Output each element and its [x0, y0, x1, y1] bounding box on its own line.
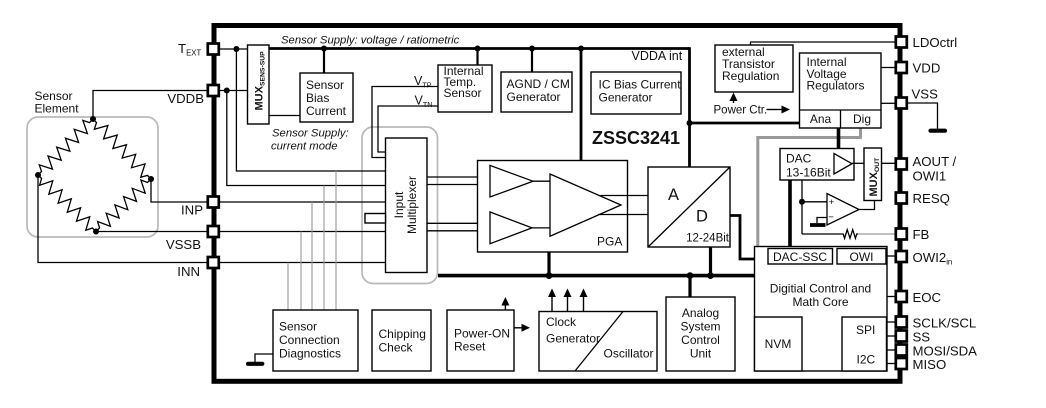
NVM label — [765, 337, 792, 351]
sensor connection diagnostics label — [279, 320, 341, 361]
net VDDA: vertical drop to PGA — [580, 49, 583, 161]
wire INP to input mux — [220, 201, 386, 203]
wire bridge-top to VDDB pin — [93, 91, 208, 120]
svg-text:Sensor Supply: voltage / ratio: Sensor Supply: voltage / ratiometric — [281, 35, 460, 47]
wire mux out 1b — [427, 184, 490, 186]
net VDDA: power ctr horizontal to regulators — [688, 122, 799, 125]
wire VDDB pin to MUX — [220, 90, 248, 92]
bridge resistor bottom-right — [96, 179, 151, 232]
wire LDOctrl to ext transistor regulation — [751, 42, 896, 45]
pin MISO — [896, 358, 907, 369]
bridge resistor top-left — [38, 119, 93, 175]
wire TEXT sense down to input mux — [236, 49, 385, 171]
external transistor regulation label — [722, 45, 779, 83]
svg-text:Sensor Supply:: Sensor Supply: — [272, 128, 349, 140]
svg-text:Generator: Generator — [546, 332, 600, 346]
opamp plus sign — [829, 197, 835, 208]
SPI/I2C block — [842, 317, 887, 371]
input multiplexer notch box — [365, 214, 386, 224]
svg-text:NVM: NVM — [765, 337, 792, 351]
internal temp sensor block — [438, 65, 492, 112]
svg-text:A: A — [668, 186, 679, 204]
svg-text:VDDA int: VDDA int — [632, 49, 683, 63]
wire regulators to VSS — [881, 102, 896, 104]
bridge resistor top-right — [93, 119, 151, 179]
pin INP — [208, 197, 219, 208]
svg-text:LDOctrl: LDOctrl — [913, 35, 958, 50]
svg-text:AGND / CM: AGND / CM — [507, 77, 570, 91]
gray sense line 5 — [335, 171, 337, 310]
digital control and math core block — [755, 247, 888, 372]
OWI label — [850, 250, 874, 264]
clock generator label — [546, 315, 600, 346]
power ctr label — [714, 105, 768, 117]
I2C label — [857, 353, 876, 367]
svg-text:Connection: Connection — [279, 333, 340, 347]
MISO pin label — [913, 357, 947, 372]
svg-text:Chipping: Chipping — [379, 327, 426, 341]
MUXout label — [868, 157, 881, 197]
junction TEXT — [233, 46, 239, 52]
input multiplexer block — [386, 138, 428, 273]
net VDDA: vertical drop to ADC — [688, 47, 691, 168]
sensor bias current label — [306, 78, 347, 118]
svg-text:SPI: SPI — [856, 323, 875, 337]
DAC block — [780, 149, 854, 181]
analog control bus horizontal — [438, 274, 755, 278]
net VDDA: sensor supply horizontal line — [269, 47, 690, 50]
clock generator block — [539, 312, 657, 372]
wire TEXT pin to MUX — [220, 48, 248, 50]
svg-text:+: + — [829, 197, 835, 208]
svg-text:Current: Current — [306, 104, 347, 118]
chipping check label — [379, 327, 426, 355]
svg-text:Power Ctr.: Power Ctr. — [714, 105, 768, 117]
PGA label — [597, 235, 622, 249]
oscillator label — [604, 347, 654, 361]
input multiplexer rounded enclosure — [362, 127, 438, 284]
svg-text:Element: Element — [35, 102, 80, 116]
bridge node right — [148, 176, 154, 182]
svg-text:Sensor: Sensor — [306, 78, 344, 92]
VDD pin label — [913, 61, 941, 76]
ground symbol diagnostics — [248, 362, 262, 366]
svg-text:Check: Check — [379, 341, 414, 355]
junction opamp plus input — [799, 199, 805, 205]
svg-text:ZSSC3241: ZSSC3241 — [592, 128, 680, 148]
svg-text:RESQ: RESQ — [913, 191, 950, 206]
wire bridge-right to INP pin — [151, 179, 208, 202]
VDDB pin label — [167, 91, 204, 106]
wire opamp output to MUXout — [859, 201, 875, 210]
AOUT/OWI1 pin label — [913, 154, 957, 184]
wire VSS to ground — [907, 103, 938, 129]
wire SCLK — [887, 321, 896, 323]
EOC pin label — [913, 290, 942, 305]
wire diagnostics to ground — [255, 354, 273, 362]
svg-text:DAC: DAC — [786, 152, 812, 166]
svg-text:Multiplexer: Multiplexer — [405, 176, 419, 234]
wire INN to input mux — [220, 262, 386, 264]
arrow POR to clock generator — [514, 324, 530, 332]
IC bias current generator block — [591, 72, 681, 114]
pin VSS — [896, 98, 907, 109]
pin VSSB — [208, 226, 219, 237]
wire VTP — [372, 87, 438, 158]
wire supply to AGND/CM generator — [531, 49, 533, 73]
wire supply to internal temp sensor — [476, 49, 478, 66]
VDDA int label — [632, 49, 683, 63]
Dig cell label — [853, 112, 871, 126]
svg-text:EOC: EOC — [913, 290, 942, 305]
pin FB — [896, 229, 907, 240]
svg-text:Regulation: Regulation — [722, 69, 779, 83]
svg-text:Generator: Generator — [507, 90, 561, 104]
internal voltage regulators label — [807, 55, 865, 93]
svg-text:System: System — [680, 320, 720, 334]
opamp minus sign — [828, 212, 834, 223]
wire feedback to resistor — [802, 233, 842, 235]
svg-text:Input: Input — [392, 191, 406, 218]
bridge node top — [90, 116, 96, 122]
DAC-SSC block — [768, 249, 833, 265]
ZSSC3241 label — [592, 128, 680, 148]
svg-text:Power-ON: Power-ON — [454, 327, 510, 341]
sensor connection diagnostics block — [273, 310, 358, 371]
sensor bias current block — [300, 73, 353, 122]
svg-text:PGA: PGA — [597, 235, 622, 249]
wire mux out 2a — [427, 222, 490, 224]
svg-text:Unit: Unit — [690, 347, 712, 361]
wire MISO — [887, 363, 896, 365]
svg-text:Math Core: Math Core — [792, 295, 848, 309]
wire VDDB sense down to input mux — [227, 91, 386, 186]
wire MUX to sensor bias current — [269, 115, 300, 117]
wire mux out 1a — [427, 176, 490, 178]
clock arrow 1 — [548, 289, 556, 312]
svg-text:MISO: MISO — [913, 357, 947, 372]
svg-text:13-16Bit: 13-16Bit — [786, 166, 831, 180]
pin VDD — [896, 62, 907, 73]
wire amp1 to main amp — [533, 180, 550, 182]
thick wire DAC to DAC-SSC — [788, 180, 792, 248]
bus vertical to PGA bottom — [547, 253, 550, 276]
svg-text:Analog: Analog — [682, 306, 719, 320]
wire DAC feedback vertical — [801, 180, 803, 234]
wire EOC — [887, 296, 896, 298]
ADC label A — [668, 186, 679, 204]
thick wire Ana to DAC — [837, 128, 841, 156]
junction VDDB — [224, 88, 230, 94]
FB pin label — [913, 227, 930, 242]
svg-text:Clock: Clock — [546, 315, 577, 329]
ADC label D — [696, 208, 708, 226]
VSS pin label — [912, 87, 939, 102]
wire bridge-bottom to VSSB pin — [96, 231, 208, 233]
svg-text:AOUT /: AOUT / — [913, 154, 957, 169]
gray supply wire Dig to digital core — [758, 128, 861, 246]
bus vertical to analog system control unit — [688, 276, 691, 297]
junction VDDA-PGA — [578, 46, 584, 52]
gray sense line 1 — [287, 263, 289, 310]
MOSI/SDA pin label — [913, 344, 978, 359]
svg-text:12-24Bit: 12-24Bit — [686, 233, 730, 245]
junction supply-temp — [475, 46, 481, 52]
MUX sensor-supply label — [254, 51, 267, 111]
svg-text:Control: Control — [681, 333, 720, 347]
internal voltage regulators block — [800, 53, 882, 128]
pin RESQ — [896, 193, 907, 204]
INN pin label — [177, 264, 200, 279]
pin TEXT — [208, 44, 219, 55]
wire ADC output to digital core — [730, 216, 755, 260]
svg-text:Ana: Ana — [810, 112, 832, 126]
junction supply-bias — [321, 46, 327, 52]
sensor supply current mode label — [271, 128, 349, 153]
VSSB pin label — [166, 237, 201, 252]
arrow POR up — [501, 297, 509, 310]
ground symbol VSS — [931, 129, 946, 133]
Ana cell label — [810, 112, 832, 126]
PGA block — [478, 161, 628, 253]
svg-text:Oscillator: Oscillator — [604, 347, 654, 361]
pin VDDB — [208, 85, 219, 96]
svg-text:Regulators: Regulators — [807, 79, 865, 93]
PGA amp triangle 2 — [490, 212, 532, 244]
internal temp sensor label — [444, 64, 484, 100]
pin SS — [896, 331, 907, 342]
VTN label — [415, 94, 433, 110]
OWI2in pin label — [913, 250, 953, 267]
wire amp2 to main amp — [532, 227, 550, 229]
MUXout block — [864, 148, 882, 201]
svg-text:Reset: Reset — [454, 340, 486, 354]
svg-text:VSSB: VSSB — [166, 237, 201, 252]
wire MOSI — [887, 349, 896, 351]
svg-text:VSS: VSS — [912, 87, 939, 102]
IC bias current generator label — [599, 78, 682, 105]
pin INN — [208, 257, 219, 268]
svg-text:Generator: Generator — [599, 91, 653, 105]
junction bus-ADC — [707, 272, 714, 279]
DAC label — [786, 152, 831, 180]
OWI block — [837, 249, 886, 265]
wire MUXout to AOUT pin — [882, 162, 896, 164]
svg-text:current mode: current mode — [271, 141, 338, 153]
svg-text:I2C: I2C — [857, 353, 876, 367]
power-on reset block — [447, 310, 514, 371]
pin MOSI/SDA — [896, 345, 907, 356]
svg-text:OWI1: OWI1 — [913, 169, 947, 184]
gray sense line 3 — [311, 202, 313, 310]
svg-text:Digitial Control and: Digitial Control and — [770, 282, 871, 296]
svg-text:Bias: Bias — [306, 91, 329, 105]
PGA amp triangle 1 — [490, 165, 533, 197]
wire opamp minus input — [817, 218, 827, 224]
svg-text:Sensor: Sensor — [279, 320, 317, 334]
LDOctrl pin label — [913, 35, 958, 50]
svg-text:IC Bias Current: IC Bias Current — [599, 78, 682, 92]
SS pin label — [913, 330, 931, 345]
pin SCLK/SCL — [896, 317, 907, 328]
analog system control unit label — [680, 306, 720, 361]
junction supply-agnd — [529, 46, 535, 52]
chip boundary — [214, 26, 900, 382]
bridge node bottom — [93, 229, 99, 235]
svg-text:INP: INP — [181, 203, 203, 218]
arrow power ctr to regulators — [767, 106, 791, 114]
op-amp triangle — [827, 194, 859, 226]
svg-text:DAC-SSC: DAC-SSC — [773, 250, 827, 264]
gray sense line 4 — [323, 186, 325, 310]
wire regulators to VDD — [881, 67, 896, 69]
ADC label 12-24Bit — [686, 233, 730, 245]
wire OWI to OWI2 pin — [886, 255, 896, 257]
chipping check block — [372, 310, 431, 371]
wire supply to sensor bias current — [323, 49, 325, 74]
DAC-SSC label — [773, 250, 827, 264]
junction VDDA-powerctr — [687, 120, 693, 126]
svg-text:FB: FB — [913, 227, 930, 242]
sensor supply voltage ratiometric label — [281, 35, 460, 47]
RESQ pin label — [913, 191, 950, 206]
wire bridge-left to INN pin — [38, 175, 208, 263]
feedback resistor — [842, 230, 859, 239]
input multiplexer label — [392, 176, 419, 234]
clock arrow 3 — [580, 289, 588, 312]
wire DAC to MUXout — [852, 162, 864, 164]
wire SS — [887, 335, 896, 337]
gray wire resistor to FB pin — [858, 233, 895, 235]
pin AOUT / — [896, 159, 907, 170]
clock arrow 2 — [564, 289, 572, 312]
svg-text:VDD: VDD — [913, 61, 941, 76]
SPI label — [856, 323, 875, 337]
wire opamp plus input — [802, 201, 827, 203]
pin OWI2 — [896, 251, 907, 262]
bridge resistor bottom-left — [38, 175, 96, 232]
pin LDOctrl — [896, 37, 907, 48]
wire VSSB to input mux — [220, 231, 386, 233]
analog system control unit block — [666, 297, 735, 371]
sensor element label — [35, 89, 80, 116]
sensor element rounded enclosure — [27, 117, 158, 237]
pin EOC — [896, 291, 907, 302]
AGND/CM generator label — [507, 77, 570, 104]
svg-text:SS: SS — [913, 330, 931, 345]
junction bus-PGA — [546, 272, 553, 279]
svg-text:INN: INN — [177, 264, 200, 279]
junction bus-ASCU — [687, 272, 694, 279]
gray sense line 2 — [300, 232, 302, 310]
VTP label — [414, 74, 432, 90]
NVM block — [755, 317, 803, 371]
TEXT pin label — [178, 41, 201, 58]
DAC buffer triangle — [834, 154, 852, 175]
MUX sensor-supply block — [248, 45, 270, 124]
wire PGA to ADC a — [601, 195, 649, 197]
power-on reset label — [454, 327, 510, 354]
svg-text:SCLK/SCL: SCLK/SCL — [913, 316, 977, 331]
svg-text:VDDB: VDDB — [167, 91, 204, 106]
external transistor regulation block — [715, 45, 793, 92]
PGA main amp triangle — [550, 174, 621, 236]
arrow power ctr to ext transistor — [730, 93, 738, 104]
opamp signal ground bar — [810, 223, 826, 227]
SCLK/SCL pin label — [913, 316, 977, 331]
AGND/CM generator block — [501, 72, 572, 112]
svg-text:Diagnostics: Diagnostics — [279, 347, 341, 361]
svg-text:−: − — [828, 212, 834, 223]
svg-text:Dig: Dig — [853, 112, 871, 126]
wire VTN — [378, 106, 438, 152]
bus vertical to ADC bottom — [709, 248, 712, 276]
svg-text:Sensor: Sensor — [444, 86, 482, 100]
bridge node left — [35, 172, 41, 178]
wire PGA to ADC b — [598, 214, 648, 216]
wire mux out 2b — [427, 230, 490, 232]
ADC block — [648, 167, 730, 247]
digital core label — [770, 282, 871, 310]
INP pin label — [181, 203, 203, 218]
svg-text:OWI: OWI — [850, 250, 874, 264]
svg-text:D: D — [696, 208, 708, 226]
